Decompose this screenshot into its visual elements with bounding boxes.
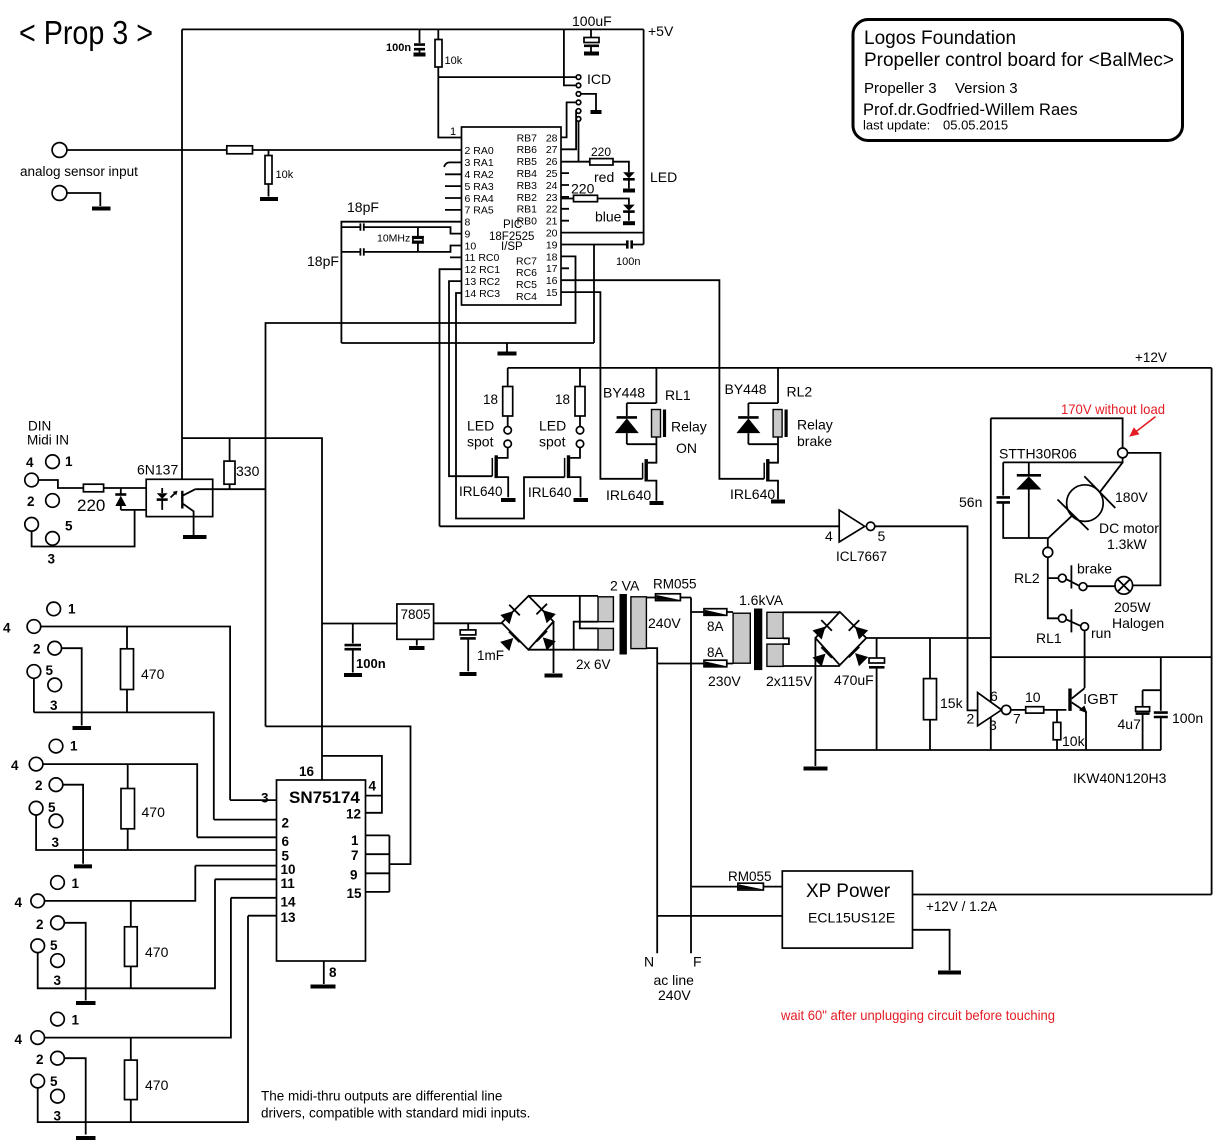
wire +12V rail bbox=[508, 367, 1212, 369]
diode B2 top-left bbox=[812, 620, 832, 640]
svg-text:19: 19 bbox=[546, 239, 558, 251]
svg-text:I/SP: I/SP bbox=[501, 241, 523, 253]
ground (6N137 emitter) bbox=[183, 535, 207, 539]
connector analog sensor input bbox=[52, 143, 67, 158]
svg-text:100n: 100n bbox=[1172, 710, 1203, 726]
svg-text:2 VA: 2 VA bbox=[610, 578, 640, 594]
svg-text:5: 5 bbox=[50, 938, 58, 953]
connector midi thru 3 bbox=[51, 876, 65, 890]
svg-text:1: 1 bbox=[72, 1013, 80, 1028]
svg-text:1: 1 bbox=[65, 454, 73, 469]
ground (1mF) bbox=[460, 672, 477, 676]
ground (7805) bbox=[409, 646, 425, 650]
ground (RL1 source) bbox=[650, 501, 664, 505]
svg-text:15k: 15k bbox=[940, 695, 964, 711]
svg-text:4u7: 4u7 bbox=[1118, 716, 1142, 732]
svg-text:RB4: RB4 bbox=[517, 168, 538, 180]
wire analog input to PIC pin2 bbox=[67, 149, 462, 151]
svg-text:ac line: ac line bbox=[654, 972, 695, 988]
wire +12V IGBT rail bbox=[991, 656, 1212, 658]
svg-text:IRL640: IRL640 bbox=[459, 484, 503, 499]
wire midi data to inputs bbox=[266, 726, 411, 864]
wire thru4 bus to SN75174 pin13 bbox=[38, 916, 248, 1122]
svg-text:blue: blue bbox=[595, 209, 622, 225]
wire +12V right edge down to XP power bbox=[1211, 368, 1213, 895]
svg-text:DIN: DIN bbox=[28, 419, 51, 434]
ground (ICD) bbox=[591, 110, 602, 114]
svg-text:16: 16 bbox=[299, 764, 315, 779]
wire 170V rail bbox=[866, 637, 991, 639]
svg-text:1: 1 bbox=[72, 876, 80, 891]
svg-text:10k: 10k bbox=[276, 169, 294, 181]
motor M 180V DC bbox=[1100, 462, 1123, 492]
ground (XP power) bbox=[913, 930, 950, 971]
svg-text:ICL7667: ICL7667 bbox=[836, 549, 887, 564]
svg-text:RB2: RB2 bbox=[517, 192, 538, 204]
svg-text:10k: 10k bbox=[445, 55, 463, 67]
svg-text:100n: 100n bbox=[616, 256, 640, 268]
ground (SN75174 pin8) bbox=[323, 961, 325, 984]
svg-text:470: 470 bbox=[145, 1077, 169, 1093]
svg-text:4: 4 bbox=[11, 758, 19, 773]
wire PIC pin19 to ground bus bbox=[593, 245, 595, 344]
wire bridge1 to 2VA secondary bbox=[529, 595, 598, 597]
wire PIC pin18 RC7 net bbox=[266, 256, 576, 726]
svg-text:18pF: 18pF bbox=[347, 199, 379, 215]
svg-text:Logos Foundation: Logos Foundation bbox=[864, 28, 1016, 49]
wire ground bus under PIC bbox=[341, 343, 594, 352]
bridge rectifier B1 bbox=[502, 596, 554, 650]
svg-text:2: 2 bbox=[35, 778, 43, 793]
svg-text:Prof.dr.Godfried-Willem Raes: Prof.dr.Godfried-Willem Raes bbox=[863, 101, 1078, 119]
op-amp U4 SN75174 bbox=[277, 780, 366, 961]
ground (thru3) bbox=[76, 1001, 96, 1005]
ground (analog pulldown) bbox=[260, 197, 278, 201]
svg-text:2x115V: 2x115V bbox=[766, 673, 813, 689]
wire PIC pin15 to RL1 gate bbox=[561, 292, 643, 479]
wire thru1 pin4 to SN75174 pin3 bbox=[41, 627, 230, 801]
wire 6N137 output bbox=[195, 488, 265, 490]
svg-text:9: 9 bbox=[350, 868, 358, 883]
relay coil RL1 bbox=[652, 410, 661, 438]
svg-text:RL1: RL1 bbox=[1036, 630, 1062, 646]
wire RL2 coil bottom bbox=[748, 437, 778, 463]
svg-text:1mF: 1mF bbox=[477, 648, 504, 663]
wire thru3 bus to SN75174 pin11 bbox=[38, 879, 215, 988]
wire XP +12V output bbox=[913, 894, 1212, 896]
PIC right pin labels bbox=[516, 132, 558, 303]
wire ICL7667 out to driver B bbox=[875, 526, 978, 710]
svg-text:IRL640: IRL640 bbox=[730, 486, 775, 502]
capacitor 100n (PIC decoupling) bbox=[561, 244, 644, 246]
svg-text:4: 4 bbox=[15, 1032, 23, 1047]
svg-text:14: 14 bbox=[281, 895, 297, 910]
svg-text:10: 10 bbox=[465, 241, 477, 253]
svg-text:23: 23 bbox=[546, 192, 558, 204]
svg-text:1: 1 bbox=[68, 602, 76, 617]
wire +5V branch bbox=[182, 438, 322, 780]
svg-text:330: 330 bbox=[236, 463, 260, 479]
wire thru2 pin2 to ground bbox=[63, 785, 83, 864]
diode 1N4148 (reverse protection) bbox=[120, 488, 122, 494]
diode B2 top-right bbox=[849, 620, 869, 640]
wire ICD pin5 to PIC pin27 bbox=[561, 111, 576, 149]
wire SN75174 pin3 bbox=[230, 799, 276, 801]
svg-text:4 RA2: 4 RA2 bbox=[465, 169, 494, 181]
PIC pin stubs right 17,21-25 bbox=[561, 173, 569, 268]
connector motor - terminal bbox=[1043, 547, 1053, 557]
svg-text:470: 470 bbox=[141, 666, 165, 682]
svg-text:Propeller control board for <B: Propeller control board for <BalMec> bbox=[864, 50, 1174, 71]
wire 6N137 vcc bbox=[181, 438, 183, 479]
svg-text:1: 1 bbox=[351, 833, 359, 848]
svg-text:RM055: RM055 bbox=[728, 869, 772, 884]
svg-text:4: 4 bbox=[3, 621, 11, 636]
wire thru1 pin2 to ground bbox=[62, 648, 82, 725]
svg-text:Halogen: Halogen bbox=[1112, 615, 1164, 631]
svg-text:LED: LED bbox=[650, 169, 677, 185]
capacitor 100n (gate supply) bbox=[1160, 690, 1162, 711]
svg-text:Midi IN: Midi IN bbox=[27, 433, 69, 448]
svg-text:RB0: RB0 bbox=[517, 216, 538, 228]
svg-text:28: 28 bbox=[546, 132, 558, 144]
svg-text:470uF: 470uF bbox=[834, 672, 874, 688]
capacitor 470uF bbox=[876, 638, 878, 658]
svg-text:brake: brake bbox=[797, 433, 832, 449]
svg-text:4: 4 bbox=[26, 455, 34, 470]
transistor IGBT IKW40N120H3 bbox=[1068, 689, 1071, 711]
wire ICD pin4 to PIC pin28 bbox=[561, 102, 576, 137]
wire thru3 pin2 to ground bbox=[64, 923, 85, 1001]
ground (100n) bbox=[344, 673, 362, 677]
svg-text:spot: spot bbox=[539, 434, 566, 450]
svg-text:05.05.2015: 05.05.2015 bbox=[943, 118, 1008, 133]
svg-text:5: 5 bbox=[65, 519, 73, 534]
svg-text:16: 16 bbox=[546, 275, 558, 287]
svg-text:8A: 8A bbox=[707, 619, 724, 634]
connector midi thru 1 bbox=[47, 602, 61, 616]
svg-text:240V: 240V bbox=[648, 615, 681, 631]
svg-text:100n: 100n bbox=[386, 42, 411, 54]
regulator 7805 bbox=[397, 604, 434, 639]
svg-text:RB7: RB7 bbox=[517, 132, 538, 144]
svg-text:IRL640: IRL640 bbox=[606, 487, 651, 503]
svg-text:3: 3 bbox=[52, 835, 60, 850]
svg-text:5: 5 bbox=[50, 1074, 58, 1089]
connector midi thru 2 bbox=[49, 739, 63, 753]
svg-text:RL2: RL2 bbox=[1014, 570, 1040, 586]
svg-text:7: 7 bbox=[1013, 711, 1021, 727]
wire PIC pin12 to ICL7667 input bbox=[440, 269, 462, 526]
wire PIC pin8 to crystal block bbox=[341, 222, 461, 343]
wire 1.6kVA secondary series link bbox=[783, 638, 789, 644]
svg-text:wait 60" after unplugging circ: wait 60" after unplugging circuit before… bbox=[780, 1007, 1055, 1023]
svg-text:spot: spot bbox=[467, 434, 494, 450]
ground (bridge1) bbox=[553, 622, 555, 674]
svg-text:12 RC1: 12 RC1 bbox=[465, 264, 501, 276]
svg-text:2: 2 bbox=[36, 1052, 44, 1067]
svg-text:7805: 7805 bbox=[401, 607, 431, 622]
diode B1 bottom-left bbox=[499, 632, 519, 652]
svg-text:Relay: Relay bbox=[797, 417, 833, 433]
svg-text:3: 3 bbox=[48, 552, 56, 567]
wire thru2 pin4 to SN75174 pin6 bbox=[43, 764, 197, 837]
wire motor top feed bbox=[991, 418, 1123, 448]
transistor Q2 IRL640 (spot2) bbox=[570, 448, 580, 458]
wire bridge2 minus to ground bbox=[814, 638, 816, 766]
capacitor 4u7 bbox=[1143, 657, 1161, 690]
svg-text:14 RC3: 14 RC3 bbox=[465, 288, 501, 300]
wire secondary to bridge2 bbox=[783, 611, 840, 613]
wire SN75174 vcc/enables bbox=[322, 756, 382, 813]
wire thru4 pin4 to SN75174 pin14 bbox=[45, 898, 231, 1038]
ground (thru2) bbox=[74, 864, 92, 868]
wire SN75174 pin2 bbox=[214, 819, 277, 821]
svg-text:11: 11 bbox=[281, 876, 296, 891]
svg-text:F: F bbox=[693, 954, 702, 970]
wire F line down bbox=[690, 598, 692, 954]
svg-text:21: 21 bbox=[546, 216, 558, 228]
svg-text:Propeller 3: Propeller 3 bbox=[864, 80, 937, 97]
resistor 10k (MCLR pullup) bbox=[437, 29, 439, 77]
wire ICD pin6 to PIC pin26 bbox=[578, 121, 580, 162]
svg-text:18: 18 bbox=[555, 392, 570, 407]
svg-text:STTH30R06: STTH30R06 bbox=[999, 446, 1077, 462]
diode B2 bottom-left bbox=[812, 647, 832, 667]
wire run to IGBT collector bbox=[1084, 631, 1086, 689]
capacitor 100n (top left decoupling) bbox=[419, 29, 421, 43]
svg-text:11 RC0: 11 RC0 bbox=[465, 252, 500, 264]
svg-text:220: 220 bbox=[571, 181, 595, 197]
svg-text:RM055: RM055 bbox=[653, 577, 697, 592]
wire thru3 pin4 to SN75174 pin10 bbox=[45, 866, 196, 901]
svg-text:2 RA0: 2 RA0 bbox=[465, 145, 494, 157]
svg-text:SN75174: SN75174 bbox=[289, 788, 360, 807]
diode B1 bottom-right bbox=[536, 631, 556, 651]
svg-text:10: 10 bbox=[281, 862, 296, 877]
diode B1 top-left bbox=[500, 605, 520, 625]
svg-text:25: 25 bbox=[546, 168, 558, 180]
title block box bbox=[853, 20, 1183, 141]
svg-text:13: 13 bbox=[281, 910, 297, 925]
transistor Q4 IRL640 (RL2) bbox=[766, 459, 769, 481]
wire ICD pin3 to ground bbox=[581, 94, 596, 110]
wire PIC pin20 to +5V bbox=[561, 232, 644, 234]
svg-text:6 RA4: 6 RA4 bbox=[465, 193, 494, 205]
svg-text:3: 3 bbox=[50, 698, 58, 713]
capacitor 1mF bbox=[467, 623, 469, 630]
wire MCLR pin1 bbox=[438, 77, 461, 137]
svg-text:8A: 8A bbox=[707, 645, 724, 660]
ground (thru4) bbox=[76, 1136, 96, 1140]
svg-text:6N137: 6N137 bbox=[137, 462, 178, 478]
ground (analog shield) bbox=[92, 207, 111, 211]
svg-text:LED: LED bbox=[467, 418, 494, 434]
svg-text:470: 470 bbox=[145, 944, 169, 960]
wire bottom DC- rail bbox=[815, 749, 1161, 751]
svg-text:RC7: RC7 bbox=[516, 255, 537, 267]
transistor Q1 IRL640 (spot1) bbox=[498, 448, 508, 458]
svg-text:RB5: RB5 bbox=[517, 156, 538, 168]
svg-text:RC6: RC6 bbox=[516, 267, 537, 279]
transistor Q3 IRL640 (RL1) bbox=[645, 459, 648, 481]
LED (inside 6N137) bbox=[161, 488, 163, 493]
svg-text:24: 24 bbox=[546, 180, 558, 192]
svg-text:240V: 240V bbox=[658, 987, 691, 1003]
svg-text:+5V: +5V bbox=[648, 23, 674, 39]
svg-text:BY448: BY448 bbox=[603, 385, 645, 401]
svg-text:2: 2 bbox=[33, 642, 41, 657]
capacitor 100n (5V rail) bbox=[352, 624, 354, 644]
svg-text:last update:: last update: bbox=[863, 118, 930, 133]
svg-text:+12V / 1.2A: +12V / 1.2A bbox=[926, 899, 997, 914]
wire midi-in pin4 to opto bbox=[38, 480, 83, 488]
svg-text:8: 8 bbox=[329, 965, 337, 980]
wire snubber rail bbox=[1003, 458, 1122, 463]
wire SN75174 pin13 bbox=[248, 915, 277, 917]
svg-text:100uF: 100uF bbox=[572, 13, 612, 29]
svg-text:4: 4 bbox=[15, 895, 23, 910]
svg-text:470: 470 bbox=[142, 804, 166, 820]
svg-text:analog sensor input: analog sensor input bbox=[20, 164, 138, 179]
svg-text:5: 5 bbox=[46, 663, 54, 678]
op-amp U3b ICL7667 inverter B bbox=[978, 693, 1002, 726]
wire RL1 coil bottom bbox=[627, 437, 657, 463]
svg-text:27: 27 bbox=[546, 144, 558, 156]
ground (RL2 source) bbox=[771, 500, 785, 504]
ground (red LED) bbox=[623, 189, 635, 193]
ground (thru1) bbox=[73, 726, 92, 730]
diode BY448 (RL1) bbox=[626, 403, 628, 416]
diode BY448 (RL2) bbox=[747, 403, 749, 416]
svg-text:1: 1 bbox=[70, 739, 78, 754]
svg-text:LED: LED bbox=[539, 418, 566, 434]
svg-text:RB1: RB1 bbox=[517, 204, 538, 216]
wire thru4 pin2 to ground bbox=[64, 1058, 85, 1134]
svg-text:Relay: Relay bbox=[671, 419, 707, 435]
svg-text:The midi-thru outputs are diff: The midi-thru outputs are differential l… bbox=[261, 1089, 502, 1104]
svg-text:RB6: RB6 bbox=[517, 144, 538, 156]
svg-text:ECL15US12E: ECL15US12E bbox=[808, 910, 895, 926]
wire RL2 coil to +12V bbox=[748, 368, 778, 403]
bridge rectifier B2 bbox=[815, 612, 866, 665]
svg-text:3: 3 bbox=[261, 791, 269, 806]
svg-text:ON: ON bbox=[676, 440, 697, 456]
svg-text:100n: 100n bbox=[356, 656, 386, 671]
connector motor + terminal bbox=[1118, 448, 1128, 458]
wire 7805 input bbox=[434, 622, 502, 624]
resistor (series, analog input) bbox=[227, 146, 253, 154]
svg-text:red: red bbox=[594, 169, 614, 185]
wire thru1 bus to SN75174 pin2 bbox=[34, 678, 214, 819]
op-amp U3 ICL7667 inverter A bbox=[440, 525, 840, 527]
svg-text:8: 8 bbox=[465, 217, 471, 229]
svg-text:N: N bbox=[644, 954, 654, 970]
svg-text:BY448: BY448 bbox=[725, 381, 767, 397]
svg-text:1.3kW: 1.3kW bbox=[1107, 536, 1147, 552]
PIC left pin labels bbox=[465, 145, 501, 300]
svg-text:20: 20 bbox=[546, 228, 558, 240]
relay coil RL2 bbox=[773, 410, 782, 438]
wire PIC pin14 to spot2 gate bbox=[456, 293, 565, 519]
svg-text:10: 10 bbox=[1025, 689, 1041, 705]
svg-text:4: 4 bbox=[369, 779, 377, 794]
ground (spot1 source) bbox=[501, 498, 516, 502]
svg-text:RC4: RC4 bbox=[516, 291, 537, 303]
svg-text:6: 6 bbox=[282, 834, 290, 849]
svg-text:12: 12 bbox=[346, 807, 361, 822]
wire SN75174 inputs bracket bbox=[366, 835, 390, 892]
svg-text:230V: 230V bbox=[708, 673, 741, 689]
svg-text:2: 2 bbox=[36, 917, 44, 932]
fuse 8A (top) bbox=[691, 611, 733, 613]
wire SN75174 pin14 bbox=[231, 897, 277, 899]
resistor 10k (analog pulldown) bbox=[268, 150, 270, 197]
svg-text:220: 220 bbox=[77, 496, 105, 515]
lamp 205W halogen bbox=[1115, 577, 1133, 595]
wire +5V top rail bbox=[182, 28, 644, 30]
wire PIC pin16 to RL2 gate bbox=[561, 280, 764, 479]
svg-text:18: 18 bbox=[483, 392, 498, 407]
wire midi-in pin5 bbox=[32, 510, 135, 547]
svg-text:Version 3: Version 3 bbox=[955, 80, 1018, 97]
svg-text:18pF: 18pF bbox=[307, 253, 339, 269]
svg-text:180V: 180V bbox=[1115, 489, 1148, 505]
svg-text:IRL640: IRL640 bbox=[528, 485, 572, 500]
connector midi thru 4 bbox=[51, 1012, 65, 1026]
svg-text:2: 2 bbox=[967, 711, 975, 727]
svg-text:170V without load: 170V without load bbox=[1061, 401, 1165, 417]
svg-text:5 RA3: 5 RA3 bbox=[465, 181, 494, 193]
wire +5V left vertical bbox=[181, 29, 183, 438]
svg-text:15: 15 bbox=[347, 886, 363, 901]
svg-text:1.6kVA: 1.6kVA bbox=[739, 592, 784, 608]
svg-text:IKW40N120H3: IKW40N120H3 bbox=[1073, 770, 1167, 786]
wire 7805 output to +5V bbox=[322, 623, 397, 625]
svg-text:3: 3 bbox=[54, 973, 62, 988]
svg-text:2: 2 bbox=[282, 816, 290, 831]
svg-text:10MHz: 10MHz bbox=[377, 233, 410, 245]
svg-text:7: 7 bbox=[351, 848, 359, 863]
svg-text:3: 3 bbox=[989, 717, 997, 733]
wire motor box left vertical bbox=[990, 418, 992, 750]
svg-text:5: 5 bbox=[878, 528, 886, 544]
svg-text:IGBT: IGBT bbox=[1083, 691, 1118, 708]
diode B1 top-right bbox=[536, 604, 556, 624]
wire N input to XP bbox=[657, 915, 782, 917]
svg-text:3 RA1: 3 RA1 bbox=[465, 157, 494, 169]
svg-text:DC motor: DC motor bbox=[1099, 520, 1159, 536]
svg-text:1: 1 bbox=[450, 126, 456, 138]
wire SN75174 pin6 bbox=[197, 836, 276, 838]
svg-text:2: 2 bbox=[27, 494, 35, 509]
wire halogen branch bbox=[1128, 453, 1161, 586]
svg-text:5: 5 bbox=[48, 800, 56, 815]
svg-text:XP Power: XP Power bbox=[806, 881, 891, 902]
svg-text:2x 6V: 2x 6V bbox=[576, 657, 611, 672]
svg-text:9: 9 bbox=[465, 229, 471, 241]
svg-text:18: 18 bbox=[546, 251, 558, 263]
wire analog shield to ground bbox=[67, 193, 100, 206]
svg-text:brake: brake bbox=[1077, 561, 1112, 577]
wire SN75174 pin10 bbox=[195, 865, 276, 867]
transistor (inside 6N137) bbox=[181, 491, 183, 509]
wire midi-in return bbox=[121, 509, 162, 511]
svg-text:RB3: RB3 bbox=[517, 180, 538, 192]
wire N line down bbox=[646, 648, 657, 953]
svg-text:220: 220 bbox=[591, 145, 611, 159]
wire thru2 bus to SN75174 pin5 bbox=[36, 815, 276, 850]
